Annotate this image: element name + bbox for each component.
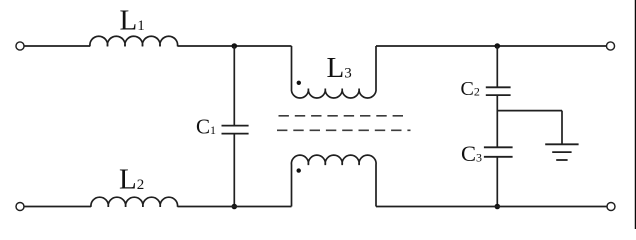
wire ground branch vertical [561, 111, 563, 145]
terminal OUT bottom [607, 203, 615, 211]
inductor L2 [91, 197, 178, 207]
capacitor C1 [222, 126, 249, 134]
wire C3 lower lead [496, 157, 498, 207]
wire C1 lower lead [233, 134, 235, 207]
polarity dot upper [297, 81, 301, 85]
node junction bottom-left [232, 204, 238, 210]
terminal OUT top [606, 42, 614, 50]
core dashed line lower [277, 129, 411, 131]
wire C1 upper lead [233, 46, 235, 126]
svg-text:L1: L1 [120, 4, 145, 36]
op winding L3 upper [291, 46, 376, 98]
svg-text:L3: L3 [327, 52, 352, 84]
terminal IN top [16, 42, 24, 50]
wire ground branch horizontal [497, 110, 562, 112]
right image border [634, 0, 636, 229]
wire C2 to C3 [496, 95, 498, 147]
polarity dot lower [297, 168, 301, 172]
node junction top-right [495, 43, 501, 49]
wire top-left to L1 [24, 45, 90, 47]
node junction top-left [232, 43, 238, 49]
core dashed line upper [279, 115, 407, 117]
capacitor C3 [484, 147, 513, 157]
ground [545, 144, 578, 160]
winding L3 lower [291, 155, 376, 206]
svg-text:L2: L2 [119, 164, 144, 196]
node junction bottom-right [495, 204, 501, 210]
wire L1 to L3 [178, 45, 292, 47]
capacitor C2 [486, 87, 511, 95]
wire L2 to L3 [178, 206, 292, 208]
wire bottom-left to L2 [24, 206, 91, 208]
svg-text:C2: C2 [461, 78, 480, 100]
wire bottom L3 to terminal [376, 206, 607, 208]
terminal IN bottom [16, 203, 24, 211]
inductor L1 [90, 36, 178, 46]
svg-text:C3: C3 [461, 141, 482, 166]
wire C2 upper lead [496, 46, 498, 87]
wire top L3 to terminal [376, 45, 606, 47]
svg-text:C1: C1 [196, 115, 216, 139]
